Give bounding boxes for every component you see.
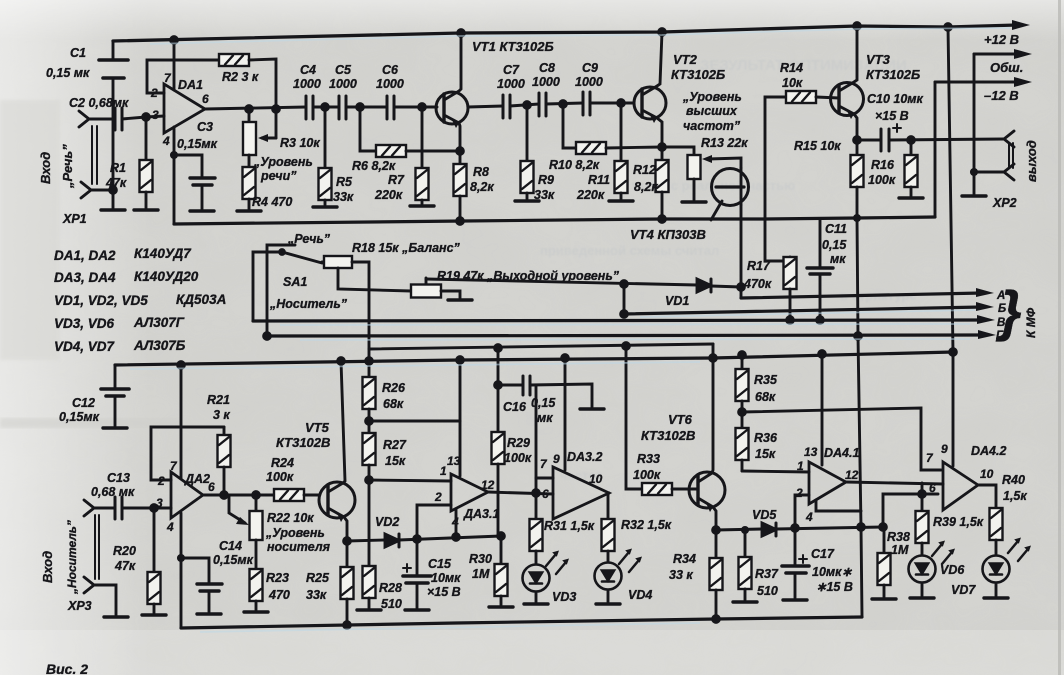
capacitor C13 [114, 497, 117, 519]
resistor R20 [153, 508, 156, 572]
svg-text:DA1: DA1 [178, 78, 203, 92]
wire bus B [624, 307, 982, 314]
wire DA4.1 pin4 [816, 500, 861, 511]
svg-text:ХР2: ХР2 [992, 196, 1017, 210]
svg-text:8,2к: 8,2к [470, 180, 494, 194]
wire bottom bus [181, 617, 862, 628]
ground R13 [682, 201, 706, 204]
svg-text:R4 470: R4 470 [252, 195, 292, 209]
potentiometer R19 [411, 285, 441, 298]
resistor R4 [243, 167, 256, 199]
ground C17 [783, 599, 807, 602]
svg-text:VT3: VT3 [866, 52, 891, 67]
node C1-XP1 ground [110, 187, 117, 194]
wire +12V arrow [1012, 20, 1030, 30]
svg-text:100к: 100к [266, 470, 294, 484]
svg-text:0,15мк: 0,15мк [59, 410, 100, 424]
wire R33 drop [626, 346, 642, 489]
capacitor C14 [181, 558, 209, 583]
resistor R36 [736, 428, 749, 460]
wire DA3.1 pin4 [455, 509, 458, 537]
capacitor C7 [502, 95, 505, 118]
svg-text:R40: R40 [1002, 473, 1025, 487]
resistor R39 [921, 494, 924, 511]
connector XP1 upper prong [79, 111, 89, 127]
wire B drop [623, 284, 626, 314]
svg-text:100к: 100к [504, 451, 532, 465]
ground VD6 [910, 597, 934, 600]
svg-text:К140УД20: К140УД20 [134, 269, 199, 284]
svg-text:R25: R25 [306, 571, 330, 585]
transistor VT5 [319, 482, 355, 518]
node bus B start [621, 311, 628, 318]
svg-text:VT5: VT5 [305, 420, 330, 435]
svg-text:VT4 КП303В: VT4 КП303В [630, 227, 706, 242]
svg-text:R2 3 к: R2 3 к [222, 70, 259, 84]
svg-text:R21: R21 [207, 393, 230, 407]
svg-text:1,5к: 1,5к [1003, 489, 1027, 503]
transistor VT1 [436, 92, 468, 124]
svg-text:C1: C1 [70, 46, 86, 60]
svg-text:VD4: VD4 [628, 588, 652, 602]
node VT1 emitter [457, 148, 464, 155]
svg-text:1000: 1000 [293, 77, 321, 91]
svg-text:VD1, VD2, VD5: VD1, VD2, VD5 [54, 293, 148, 308]
wire DA4.1 pin13 supply [821, 354, 824, 465]
svg-text:0,15: 0,15 [531, 396, 556, 410]
node R7 [419, 104, 426, 111]
wire DA4.2 output [978, 485, 996, 508]
wire DA3.2 output [608, 493, 609, 519]
node R2/output [273, 106, 280, 113]
shield cable XP1 [91, 126, 93, 184]
svg-text:C4: C4 [300, 63, 316, 77]
svg-text:220к: 220к [374, 188, 403, 202]
resistor R35 [741, 355, 744, 369]
connector XP1 lower prong [81, 182, 91, 198]
svg-text:0,68 мк: 0,68 мк [91, 485, 135, 499]
wire VT1 to C7 [468, 106, 503, 107]
resistor R21 [223, 427, 226, 435]
svg-text:R9: R9 [538, 173, 554, 187]
svg-text:33к: 33к [333, 190, 354, 204]
ground R19 [448, 299, 472, 302]
wire lower section rail [115, 352, 953, 365]
svg-text:R31 1,5к: R31 1,5к [544, 519, 595, 533]
capacitor C1 [112, 42, 115, 59]
diode VD2 [347, 540, 385, 541]
svg-text:R13 22к: R13 22к [701, 136, 748, 150]
svg-text:R20: R20 [113, 544, 136, 558]
ground C12 [103, 427, 127, 430]
svg-text:DA3.2: DA3.2 [567, 450, 602, 464]
LED VD6 [909, 556, 936, 583]
ground R23 [244, 611, 268, 614]
wire R26 node [368, 409, 371, 433]
ground R9 [515, 200, 539, 203]
wire DA4.1 pin2 [795, 495, 809, 528]
potentiometer R3 [248, 109, 251, 122]
svg-text:„Носитель”: „Носитель” [269, 297, 348, 311]
svg-text:8,2к: 8,2к [634, 180, 658, 194]
svg-text:КТ3102В: КТ3102В [641, 428, 695, 443]
node R38 feedback [880, 524, 887, 531]
svg-text:R14: R14 [780, 61, 803, 75]
node rail-VT2 [659, 29, 666, 36]
svg-text:C5: C5 [335, 63, 352, 77]
svg-text:VD5: VD5 [752, 508, 777, 522]
node R6 drop [357, 104, 364, 111]
resistor R9 [526, 105, 529, 161]
svg-text:R35: R35 [754, 373, 778, 387]
node R10 drop [560, 101, 567, 108]
svg-text:носителя: носителя [267, 540, 331, 554]
svg-text:13: 13 [447, 454, 461, 468]
svg-text:R22 10к: R22 10к [267, 511, 314, 525]
op-amp DA4.2 [943, 462, 978, 510]
capacitor C4 [305, 96, 308, 119]
svg-text:470: 470 [268, 588, 290, 602]
wire DA3.2 pin9 supply [564, 358, 567, 470]
svg-text:R26: R26 [382, 381, 406, 395]
connector XP2 [1004, 131, 1014, 147]
svg-text:R6 8,2к: R6 8,2к [352, 159, 396, 173]
svg-text:×15 В: ×15 В [427, 585, 461, 599]
ground VD3 [524, 603, 548, 606]
wire bus G [267, 335, 984, 336]
svg-text:мк: мк [537, 411, 553, 425]
svg-text:„Уровень: „Уровень [265, 526, 325, 540]
svg-text:13: 13 [804, 445, 818, 459]
svg-text:R17: R17 [747, 259, 771, 273]
faint scanner streaks [0, 418, 180, 428]
svg-text:C15: C15 [428, 557, 452, 571]
wire output line y140 [857, 139, 881, 142]
svg-text:КТ3102Б: КТ3102Б [671, 67, 725, 82]
resistor R17 [789, 257, 792, 261]
wire feedback line [883, 494, 938, 527]
connector XP3 upper prong [84, 500, 94, 516]
svg-text:ДА2: ДА2 [184, 472, 210, 486]
svg-text:С11: С11 [825, 222, 847, 236]
svg-text:1М: 1М [472, 567, 490, 581]
wire DA1 pin7 [173, 40, 176, 90]
wire C2 to DA1 pin3 [122, 116, 164, 119]
resistor R32 [602, 519, 615, 551]
svg-text:VT2: VT2 [673, 52, 698, 67]
svg-text:0,15: 0,15 [822, 238, 847, 252]
wire R6 drop [360, 107, 376, 151]
wire R10 to VT2 emitter [606, 147, 662, 148]
svg-text:3 к: 3 к [213, 408, 230, 422]
node C14 tap [178, 555, 183, 560]
svg-text:R30: R30 [469, 552, 492, 566]
wire DA1 pin4 to C3 and bus [173, 127, 176, 224]
op-amp DA4.1 [809, 462, 846, 504]
node R15 bus G [855, 333, 862, 340]
capacitor C10 [880, 129, 883, 151]
resistor R37 [742, 527, 747, 532]
svg-text:R27: R27 [383, 438, 407, 452]
svg-text:1000: 1000 [376, 77, 404, 91]
svg-text:C17: C17 [811, 547, 835, 561]
svg-text:3: 3 [152, 108, 159, 122]
svg-text:1М: 1М [891, 543, 909, 557]
wire C9 to VT2 base [590, 102, 634, 105]
wire R13 wiper to VT4 drain [708, 158, 741, 168]
svg-text:R5: R5 [336, 175, 353, 189]
svg-text:C2 0,68мк: C2 0,68мк [69, 96, 129, 110]
svg-text:R8: R8 [473, 165, 489, 179]
svg-text:33к: 33к [306, 588, 327, 602]
svg-text:VD7: VD7 [951, 583, 976, 597]
svg-text:C13: C13 [107, 471, 130, 485]
svg-text:C8: C8 [539, 61, 555, 75]
wire DA3.2 pin7 stub [536, 477, 553, 480]
label input carrier [40, 520, 79, 595]
wire DA2 feedback [151, 427, 224, 480]
node VD1 to bus B [621, 281, 628, 288]
wire bus A [741, 293, 982, 298]
op-amp DA3.1 [451, 474, 488, 511]
wire pin1 line [369, 480, 451, 481]
ground R16 [899, 197, 923, 200]
resistor R6 [376, 145, 406, 157]
svg-text:речи”: речи” [260, 169, 297, 183]
connector XP3 lower prong [84, 577, 94, 593]
svg-text:–12 В: –12 В [984, 88, 1019, 103]
svg-text:„Уровень: „Уровень [682, 90, 742, 104]
LED VD7 [983, 556, 1010, 583]
node R8 bus [457, 218, 464, 225]
node R9 [524, 102, 531, 109]
svg-text:R29: R29 [507, 436, 530, 450]
node R31 [533, 490, 540, 497]
svg-text:R23: R23 [266, 571, 289, 585]
LED VD4 arrows [619, 549, 642, 573]
node R11 [618, 100, 625, 107]
svg-text:33к: 33к [534, 188, 555, 202]
node SA1 G [264, 333, 271, 340]
svg-text:0,15мк: 0,15мк [177, 137, 218, 151]
svg-text:12: 12 [481, 478, 495, 492]
node C3 tap [171, 152, 176, 157]
node VT5 collector rail [338, 358, 345, 365]
svg-text:470к: 470к [743, 277, 772, 291]
node R12 bus [659, 216, 666, 223]
ground R5 [313, 206, 337, 209]
node VT5 emitter VD2 [344, 538, 351, 545]
svg-text:АЛ307Г: АЛ307Г [133, 315, 185, 330]
resistor R23 [250, 569, 263, 601]
svg-text:4: 4 [166, 520, 174, 534]
capacitor C12 [114, 365, 117, 388]
svg-text:К МФ: К МФ [1024, 307, 1038, 338]
svg-text:R19 47к „Выходной уровень”: R19 47к „Выходной уровень” [437, 269, 620, 283]
svg-text:15к: 15к [385, 454, 406, 468]
svg-text:47к: 47к [114, 559, 136, 573]
wire R19 wiper to VD1 [426, 279, 697, 285]
node VT3 emitter [854, 137, 861, 144]
capacitor C3 [174, 155, 202, 177]
svg-text:Обш.: Обш. [990, 60, 1023, 75]
svg-text:выход: выход [1024, 140, 1039, 182]
svg-text:R18 15к „Баланс”: R18 15к „Баланс” [352, 241, 461, 255]
wire DA4.1 output [846, 482, 943, 484]
svg-text:КТ3102В: КТ3102В [276, 435, 330, 450]
capacitor C5 [338, 96, 341, 119]
node XP2 gnd [971, 169, 976, 174]
node VT2 emitter R10 [659, 144, 666, 151]
node rail-VT3 [854, 23, 861, 30]
node R17 bus V [787, 317, 794, 324]
capacitor C17 [794, 528, 797, 565]
resistor R10 [576, 142, 606, 154]
resistor R16 [910, 140, 913, 155]
svg-text:47к: 47к [105, 176, 127, 190]
node rail DA2 pin7 [178, 362, 185, 369]
capacitor C2 [114, 108, 117, 130]
node R25 bus [344, 622, 351, 629]
node long vertical [858, 524, 865, 531]
node R15 bus [854, 215, 859, 220]
wire VT4 source to bus A [740, 205, 743, 298]
svg-text:0,15 мк: 0,15 мк [46, 66, 90, 80]
capacitor C15 [416, 539, 419, 575]
svg-text:0,15мк: 0,15мк [213, 553, 254, 567]
potentiometer R13 [662, 147, 694, 155]
svg-text:C6: C6 [382, 63, 399, 77]
svg-text:C3: C3 [197, 120, 213, 134]
resistor R24 [274, 489, 304, 501]
svg-text:2: 2 [434, 490, 442, 504]
wire C7-C8 [510, 104, 539, 106]
node R35-R36 [739, 409, 746, 416]
wire C8-C9 [546, 103, 583, 104]
node R26-R27 [366, 418, 373, 425]
svg-text:510: 510 [381, 597, 402, 611]
wire DA3.1 output [488, 492, 553, 494]
svg-text:R24: R24 [271, 456, 294, 470]
svg-text:R11: R11 [588, 173, 610, 187]
ground XP1 [101, 209, 125, 212]
node rail x460 [457, 357, 464, 364]
svg-text:1000: 1000 [329, 77, 357, 91]
resistor R7 [421, 107, 424, 168]
svg-text:4: 4 [162, 134, 170, 148]
potentiometer R18 [322, 261, 324, 264]
wire R15 long vertical to bottom [857, 187, 862, 616]
resistor R27 [363, 433, 376, 465]
transistor VT2 [634, 87, 666, 119]
svg-text:1: 1 [440, 464, 447, 478]
svg-text:К140УД7: К140УД7 [134, 246, 192, 261]
svg-text:Вход: Вход [38, 152, 53, 184]
transistor VT3 [831, 83, 864, 116]
ground XP3 [104, 616, 128, 619]
resistor R11 [620, 103, 623, 161]
wire DA1 feedback [147, 60, 219, 93]
svg-text:Вход: Вход [40, 551, 55, 583]
svg-text:XP1: XP1 [62, 212, 87, 226]
svg-text:1000: 1000 [575, 75, 603, 89]
resistor R5 [324, 107, 327, 168]
svg-text:6: 6 [542, 487, 549, 501]
ground VD4 [596, 603, 620, 606]
wire R18 wiper [338, 268, 411, 291]
svg-text:4: 4 [805, 510, 813, 524]
diode VD5 [716, 529, 762, 530]
wire C6 to VT1 base [394, 106, 437, 109]
node VD1-VT4 [738, 284, 745, 291]
node VT6 emitter VD5 [713, 527, 720, 534]
capacitor C16 [498, 384, 523, 387]
node R35 rail [739, 352, 746, 359]
wire C4-C5 [313, 106, 339, 109]
capacitor C11 [819, 220, 822, 267]
svg-text:10к: 10к [782, 76, 803, 90]
svg-text:C10 10мк: C10 10мк [867, 92, 924, 106]
resistor R40 [990, 508, 1003, 540]
svg-text:100к: 100к [868, 173, 896, 187]
node C16 [495, 382, 502, 389]
svg-text:68к: 68к [755, 390, 776, 404]
svg-text:1000: 1000 [532, 75, 560, 89]
wire VT4 gate [711, 201, 722, 220]
svg-text:SA1: SA1 [283, 275, 307, 289]
node C11 bus V [817, 317, 824, 324]
wire +12 long vertical to lower rail [948, 27, 953, 352]
svg-text:ХР3: ХР3 [67, 599, 92, 613]
svg-text:„Речь”: „Речь” [60, 144, 75, 189]
svg-text:ДА3.1: ДА3.1 [463, 507, 499, 521]
svg-text:+12 В: +12 В [984, 32, 1019, 47]
svg-text:10: 10 [980, 467, 994, 481]
svg-text:10мк∗: 10мк∗ [812, 565, 852, 579]
ground C3 [190, 210, 214, 213]
svg-text:КД503А: КД503А [176, 292, 226, 307]
node R39 [919, 491, 926, 498]
wire R2 right to output [249, 59, 276, 138]
svg-text:2: 2 [157, 474, 165, 488]
op-amp DA3.2 [553, 467, 609, 519]
svg-text:R33: R33 [637, 452, 660, 466]
wire DA2 output [203, 494, 274, 497]
svg-text:10мк: 10мк [431, 571, 461, 585]
wire DA2 pin7 [180, 365, 183, 478]
svg-text:68к: 68к [383, 397, 404, 411]
svg-text:}: } [995, 279, 1022, 342]
resistor R25 [341, 567, 354, 599]
svg-text:R16: R16 [871, 158, 895, 172]
svg-text:1000: 1000 [497, 77, 525, 91]
wire C16 to DA3.2 pin7 [535, 385, 538, 519]
ground C16 [580, 408, 604, 411]
capacitor C9 [582, 92, 585, 115]
svg-text:R28: R28 [379, 581, 402, 595]
ground VD7 [984, 597, 1008, 600]
ground XP2 [962, 195, 986, 198]
svg-text:R36: R36 [754, 431, 778, 445]
resistor R1 [145, 117, 148, 160]
svg-text:R32 1,5к: R32 1,5к [621, 518, 672, 532]
svg-text:6: 6 [929, 481, 936, 495]
resistor R34 [710, 558, 723, 590]
svg-text:КТ3102Б: КТ3102Б [866, 67, 920, 82]
diode VD1 [697, 279, 711, 292]
resistor R29 [497, 348, 500, 432]
svg-text:R1: R1 [110, 161, 126, 175]
